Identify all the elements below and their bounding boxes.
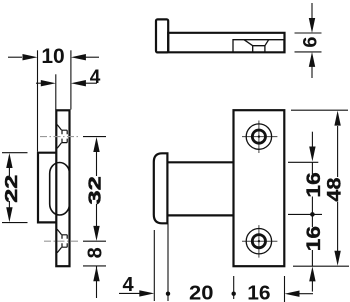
svg-text:4: 4 [90,67,101,88]
dim 32 [83,137,106,242]
top hole [242,121,277,154]
svg-text:32: 32 [84,176,104,204]
dim 48 (right outer) [337,126,339,251]
right side dims: ext lines [288,110,349,266]
dim 16 stem (right inner) [311,132,313,292]
bottom hole [242,225,277,258]
svg-text:6: 6 [300,36,321,47]
body (top view) [168,33,284,53]
countersink bottom hole (side) [57,229,61,235]
svg-text:16: 16 [304,172,325,197]
dim 16 bottom right arrow [299,293,313,295]
svg-text:22: 22 [1,175,22,203]
svg-text:16: 16 [304,226,325,251]
centerlines (side view holes) [40,137,80,242]
dots 20/16 chain [166,292,170,296]
countersink slants (top view) [244,40,253,46]
dim 6 [295,3,322,78]
svg-text:20: 20 [189,282,213,302]
cap (top view) [156,19,285,52]
plate (side view) [56,110,69,266]
plate (front) [234,110,285,266]
dim 22 [2,153,28,223]
dim 10 [8,50,99,151]
capsule slot [50,163,70,216]
svg-text:48: 48 [324,177,345,201]
svg-text:16: 16 [247,282,270,302]
svg-text:4: 4 [122,274,134,296]
svg-text:10: 10 [41,45,64,68]
bump housing [38,153,56,223]
dim 8 [83,266,106,298]
svg-text:8: 8 [85,247,107,258]
hole rect (top view) [253,46,265,52]
dim 4 (left view) [36,74,97,109]
countersink top hole (side) [57,125,67,253]
stem [167,162,233,215]
dim 4 bottom [119,292,140,294]
recess rect (top view) [233,40,284,53]
cap (front) [154,153,168,223]
bottom dims: ext lines [154,224,284,302]
